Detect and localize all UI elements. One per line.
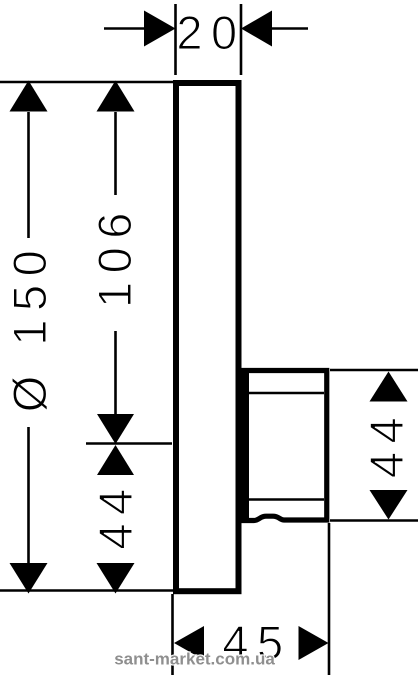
svg-text:44: 44 (360, 409, 413, 478)
svg-text:sant-market.com.ua: sant-market.com.ua (114, 650, 275, 669)
svg-text:44: 44 (89, 480, 142, 549)
svg-text:106: 106 (88, 204, 141, 308)
svg-text:Ø 150: Ø 150 (3, 242, 56, 413)
svg-text:20: 20 (176, 6, 245, 59)
